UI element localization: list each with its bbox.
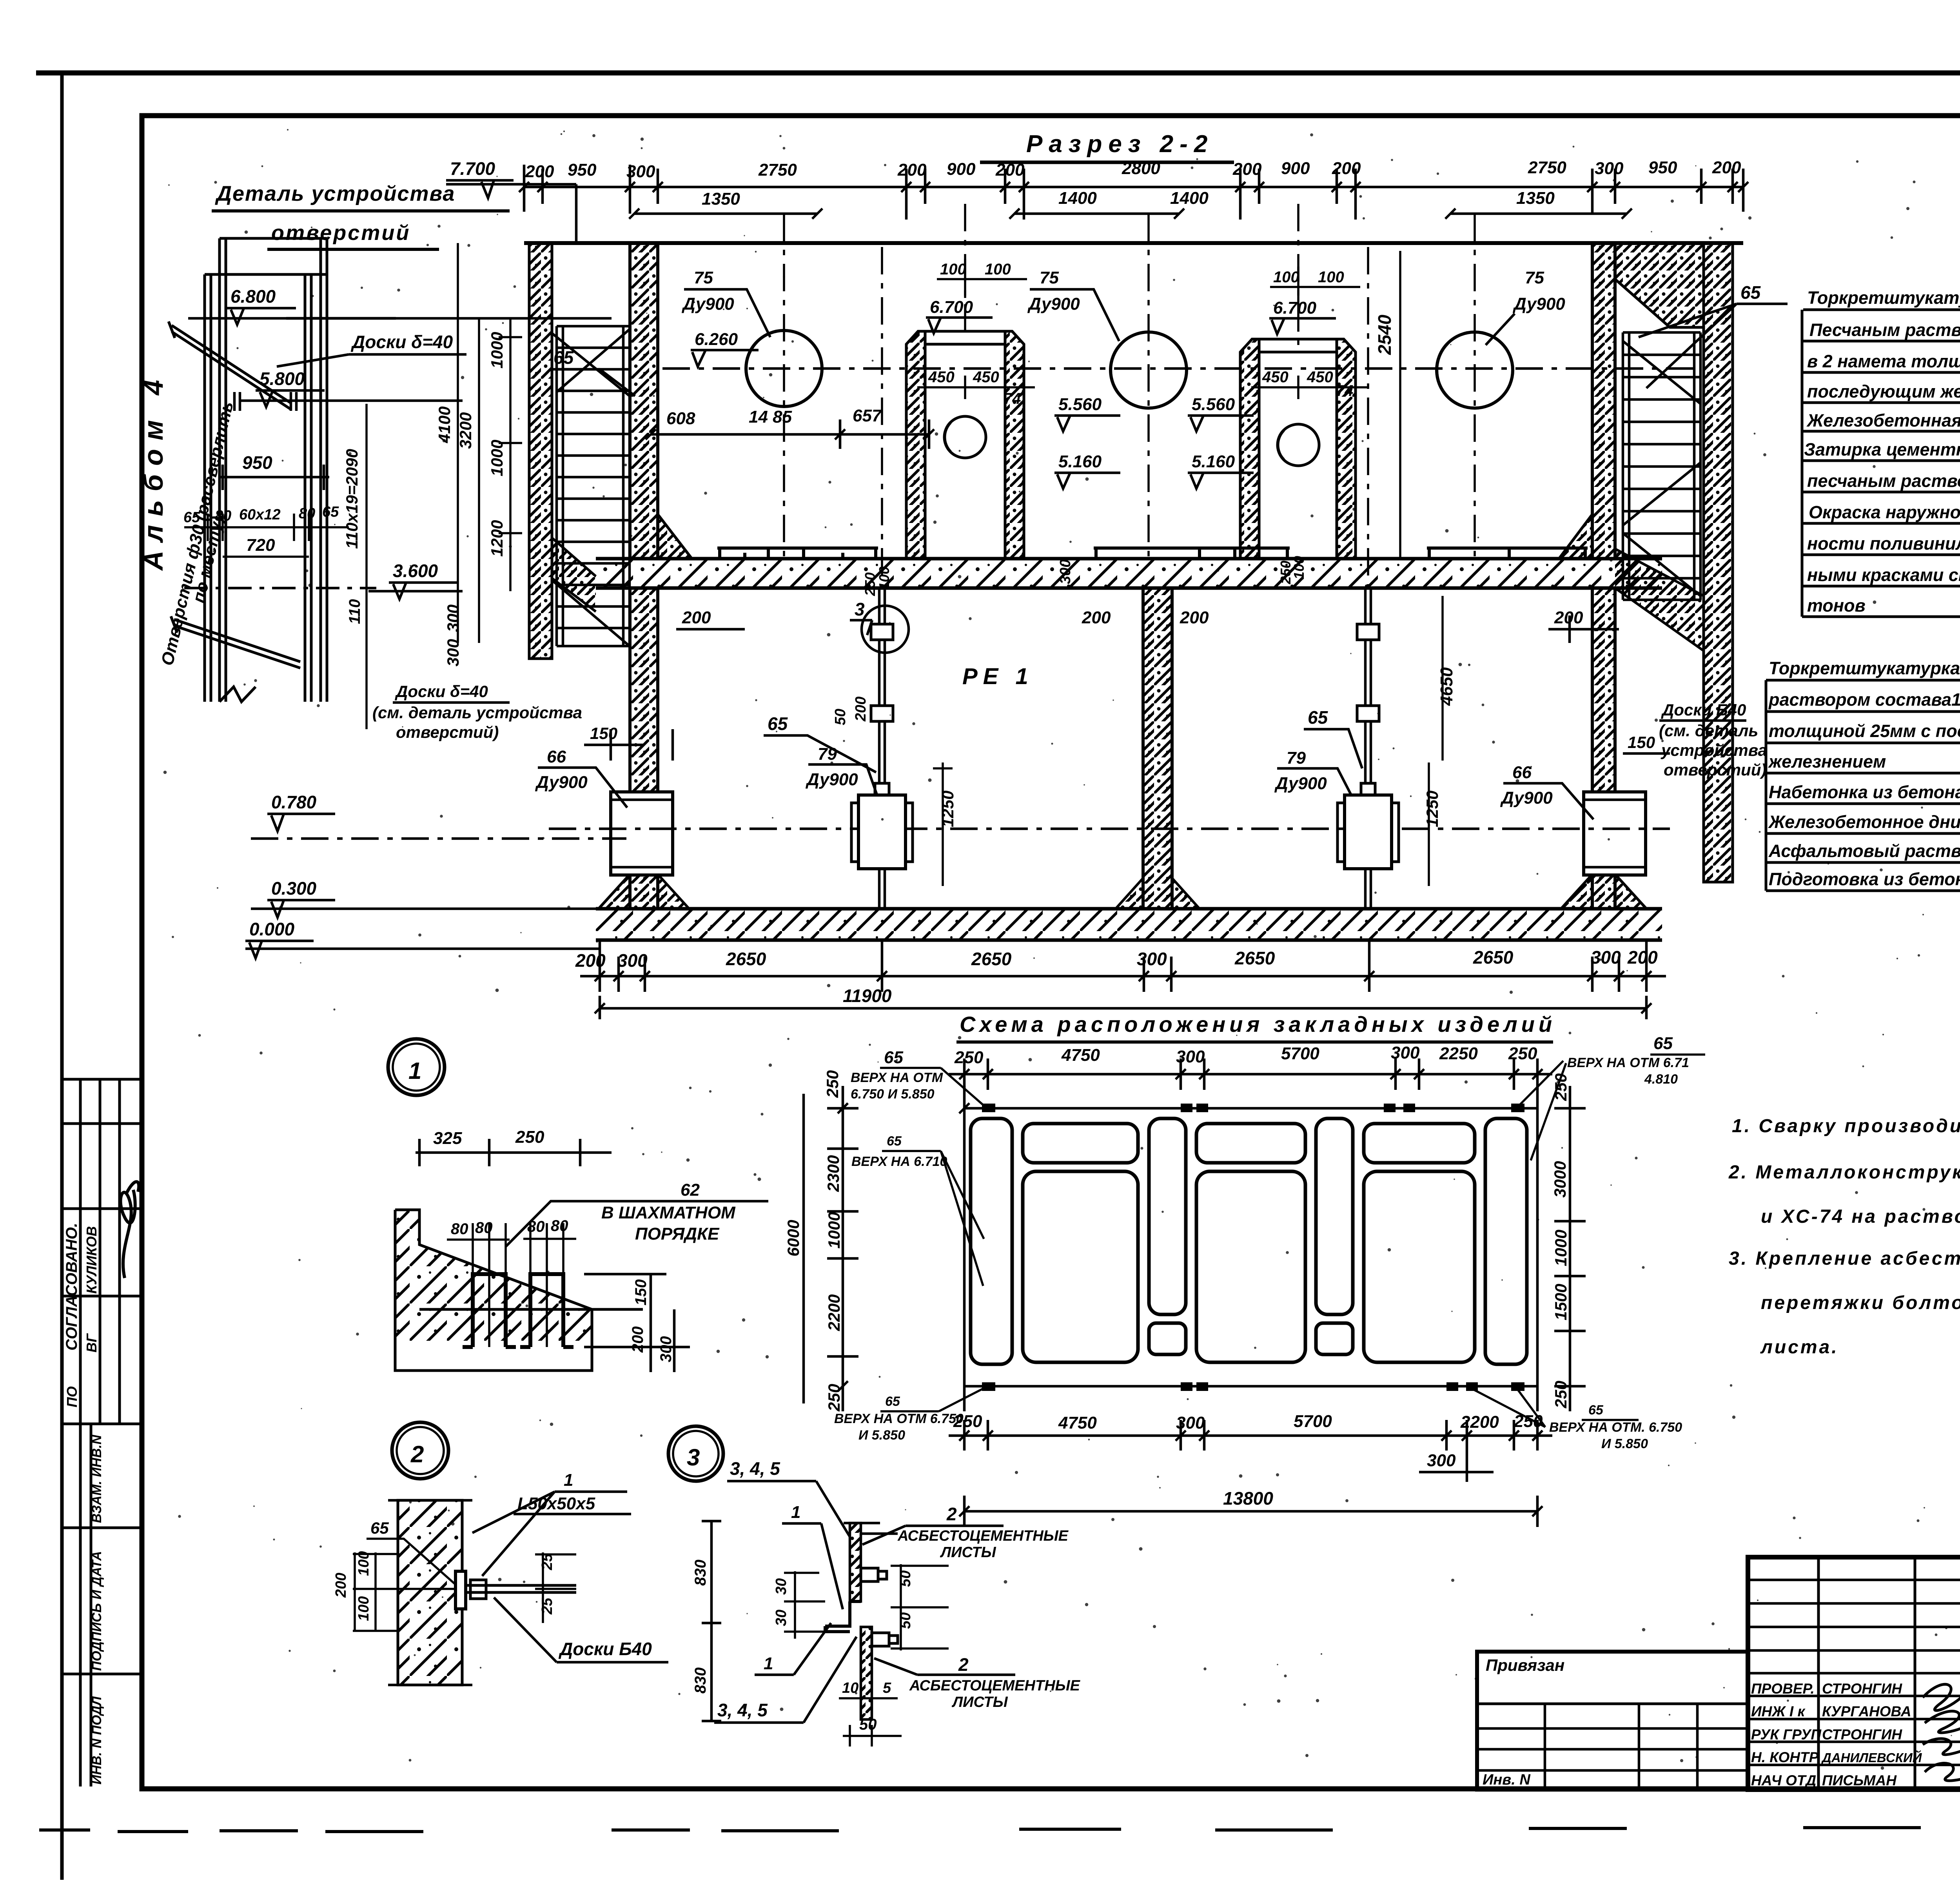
svg-text:3.600: 3.600: [393, 561, 438, 581]
sheet bottom broken line: [39, 1828, 1921, 1832]
right exterior wall (hatched): [1704, 243, 1733, 882]
svg-text:Схема расположения закладных: Схема расположения закладных изделий: [960, 1012, 1556, 1037]
svg-text:ПОДПИСЬ И ДАТА: ПОДПИСЬ И ДАТА: [89, 1551, 104, 1671]
svg-text:(см. деталь устройства: (см. деталь устройства: [372, 703, 582, 722]
detail dim 950: [220, 465, 329, 490]
right boards ladder: [1623, 332, 1700, 600]
svg-text:2. Металлоконструкции окрасит: 2. Металлоконструкции окрасить перхлорви…: [1728, 1162, 1960, 1183]
svg-text:1000: 1000: [825, 1212, 843, 1249]
svg-text:Привязан: Привязан: [1486, 1656, 1564, 1674]
svg-text:65: 65: [768, 713, 788, 734]
svg-text:5.560: 5.560: [1192, 395, 1235, 414]
schema left note 65 верх на 6.710: [851, 1134, 947, 1169]
svg-text:950: 950: [1648, 158, 1677, 177]
svg-text:300: 300: [1391, 1043, 1420, 1062]
svg-text:300: 300: [657, 1336, 675, 1362]
svg-text:3, 4, 5: 3, 4, 5: [730, 1458, 780, 1479]
svg-text:608: 608: [666, 409, 695, 428]
svg-text:1400: 1400: [1058, 189, 1097, 208]
svg-text:ПИСЬМАН: ПИСЬМАН: [1822, 1772, 1897, 1788]
label 79 Ду900 pend2: [1274, 748, 1327, 793]
schema panel B main: [1023, 1171, 1138, 1362]
detail 1 note 62 chess: [601, 1180, 736, 1244]
svg-text:75: 75: [1525, 268, 1544, 287]
section 2-2 second dimension row: [634, 212, 1627, 215]
schema dim 13800: [964, 1496, 1537, 1527]
label 75 Ду900 tank3: [1512, 268, 1565, 314]
svg-text:5.560: 5.560: [1058, 395, 1102, 414]
svg-text:АСБЕСТОЦЕМЕНТНЫЕ: АСБЕСТОЦЕМЕНТНЫЕ: [897, 1528, 1069, 1544]
svg-text:НАЧ ОТД: НАЧ ОТД: [1751, 1772, 1816, 1788]
svg-text:2: 2: [410, 1441, 424, 1467]
svg-text:250: 250: [1508, 1044, 1537, 1063]
attachment table left of title block: [1477, 1652, 1748, 1790]
floor pads tank1: [717, 548, 878, 559]
svg-text:50: 50: [832, 709, 849, 725]
partition 2 right leaf: [1337, 339, 1356, 559]
svg-text:ности поливинилацетат-: ности поливинилацетат-: [1807, 534, 1960, 554]
svg-text:2200: 2200: [825, 1294, 843, 1331]
detail 1 circle mark: [388, 1039, 445, 1095]
svg-text:74: 74: [1004, 390, 1021, 407]
svg-text:65: 65: [885, 1394, 900, 1409]
schema panel E bottom pad: [1316, 1323, 1353, 1354]
schema plate markers bottom: [982, 1382, 1524, 1391]
schema top dim line: [949, 1058, 1552, 1090]
spec text block 1: [1804, 288, 1960, 615]
detail 2 bolt assembly: [456, 1571, 576, 1609]
svg-text:4100: 4100: [435, 407, 454, 443]
scan speckles: [163, 129, 1960, 1770]
svg-text:5.160: 5.160: [1192, 452, 1235, 471]
svg-text:30: 30: [773, 1610, 789, 1626]
svg-text:Асфальтовый раствор -8: Асфальтовый раствор -8: [1768, 841, 1960, 861]
svg-text:1250: 1250: [938, 791, 957, 827]
detail 1 dims 80 80 pairs: [451, 1217, 568, 1238]
schema top-left note: [851, 1070, 943, 1102]
svg-text:Затирка цементно-: Затирка цементно-: [1804, 439, 1960, 459]
svg-text:3: 3: [855, 599, 865, 619]
svg-text:450: 450: [1307, 369, 1333, 386]
svg-text:Альбом 4: Альбом 4: [138, 371, 169, 571]
svg-text:В ШАХМАТНОМ: В ШАХМАТНОМ: [601, 1203, 736, 1222]
svg-text:80: 80: [551, 1217, 568, 1235]
svg-text:6.260: 6.260: [695, 330, 738, 349]
svg-text:1350: 1350: [1516, 189, 1555, 208]
svg-text:6.750 И 5.850: 6.750 И 5.850: [851, 1087, 935, 1102]
svg-text:300: 300: [1591, 947, 1621, 968]
svg-text:Доски Б40: Доски Б40: [558, 1639, 652, 1659]
svg-text:950: 950: [568, 160, 597, 180]
detail 2 label L50x50x5: [517, 1471, 595, 1513]
svg-text:250: 250: [1552, 1381, 1570, 1409]
left wall to slab bridge: [552, 538, 596, 612]
svg-text:перетяжки болтов для обеспе: перетяжки болтов для обеспечения влажных…: [1761, 1293, 1960, 1313]
svg-text:830: 830: [692, 1560, 709, 1586]
floor slab mid (hatched): [596, 559, 1662, 588]
svg-text:13800: 13800: [1223, 1488, 1273, 1509]
svg-text:300: 300: [1595, 159, 1624, 178]
pendulum 2 pipe 79: [1338, 795, 1399, 909]
svg-text:250: 250: [823, 1070, 842, 1098]
schema right dim chain: [1554, 1086, 1586, 1411]
svg-text:250: 250: [1514, 1412, 1543, 1431]
label 66 Ду900 left: [535, 747, 588, 792]
svg-text:отверстий: отверстий: [271, 221, 410, 245]
svg-text:11900: 11900: [843, 986, 892, 1006]
svg-text:65: 65: [554, 347, 574, 368]
svg-text:И 5.850: И 5.850: [858, 1428, 905, 1443]
svg-text:ВЕРХ НА ОТМ 6.71: ВЕРХ НА ОТМ 6.71: [1567, 1055, 1689, 1070]
svg-text:200: 200: [682, 608, 711, 627]
svg-text:Доски Б40: Доски Б40: [1661, 701, 1746, 719]
detail 2 wall band: [388, 1500, 472, 1685]
detail 1 anchor U right: [520, 1274, 573, 1347]
svg-text:4750: 4750: [1058, 1413, 1097, 1432]
detail posts: [205, 238, 327, 702]
section 2-2 roof top line: [524, 241, 1743, 245]
svg-text:Ду900: Ду900: [1027, 294, 1080, 314]
left strip signature: [121, 1182, 139, 1278]
svg-text:2750: 2750: [1528, 158, 1566, 177]
svg-text:950: 950: [242, 452, 272, 473]
partition 1 lintel line: [925, 331, 1005, 344]
svg-text:5.160: 5.160: [1058, 452, 1102, 471]
lower left wall sleeve 66 Ду900: [611, 792, 673, 875]
svg-text:отверстий): отверстий): [396, 723, 499, 741]
svg-text:60х12: 60х12: [239, 507, 281, 523]
svg-text:ВЕРХ НА ОТМ: ВЕРХ НА ОТМ: [851, 1070, 943, 1085]
lower centre line: [549, 828, 1670, 830]
partition 1 right leaf: [1005, 331, 1024, 559]
svg-text:30: 30: [773, 1578, 789, 1595]
detail 3 bolts: [861, 1568, 898, 1646]
svg-text:и ХС-74 на растворителе Р-: и ХС-74 на растворителе Р-4 по грунту ХС…: [1761, 1206, 1960, 1227]
title block signatures: [1923, 1684, 1960, 1781]
detail bolts on brace: [234, 392, 296, 411]
detail 3 circle mark: [668, 1426, 723, 1481]
svg-text:1: 1: [764, 1654, 773, 1673]
circles centre dash line: [662, 367, 1697, 370]
svg-text:200: 200: [995, 160, 1025, 180]
svg-text:300: 300: [444, 639, 462, 666]
right boards label: [1659, 701, 1767, 779]
svg-text:Н. КОНТР: Н. КОНТР: [1751, 1749, 1819, 1765]
svg-text:200: 200: [897, 160, 927, 180]
svg-text:65: 65: [183, 509, 200, 526]
svg-text:ВГ: ВГ: [83, 1333, 100, 1353]
svg-text:65: 65: [322, 504, 339, 520]
pendulum 1 pipe 79: [851, 795, 913, 909]
svg-text:65: 65: [1653, 1034, 1673, 1053]
svg-text:25: 25: [539, 1598, 555, 1615]
svg-text:1350: 1350: [702, 189, 740, 209]
partition 2 small circle 74: [1278, 424, 1319, 466]
svg-text:ВЕРХ НА ОТМ 6.750: ВЕРХ НА ОТМ 6.750: [834, 1411, 964, 1426]
svg-text:И 5.850: И 5.850: [1601, 1436, 1648, 1451]
right lower haunch: [1615, 549, 1704, 651]
svg-text:450: 450: [973, 369, 999, 386]
svg-text:2: 2: [958, 1654, 969, 1675]
schema panel F main: [1364, 1171, 1475, 1362]
svg-text:62: 62: [681, 1180, 700, 1200]
svg-text:100: 100: [940, 261, 966, 278]
svg-text:657: 657: [853, 406, 882, 425]
svg-text:325: 325: [433, 1129, 462, 1148]
svg-text:Ду900: Ду900: [1274, 774, 1327, 793]
lower left wall (hatched): [599, 588, 658, 909]
detail centreline: [184, 587, 376, 590]
detail 3 sheet strip lower: [861, 1627, 872, 1719]
svg-text:200: 200: [1332, 159, 1361, 178]
svg-text:450: 450: [928, 369, 955, 386]
schema panel E: [1316, 1118, 1353, 1314]
detail 3 sheet strip upper: [844, 1523, 898, 1601]
svg-text:в 2 намета толщиной 25мм с: в 2 намета толщиной 25мм с: [1807, 351, 1960, 371]
svg-text:ЛИСТЫ: ЛИСТЫ: [940, 1544, 996, 1561]
partition 1 small circle 74: [944, 416, 986, 458]
svg-text:Песчаным раствором состава1:2: Песчаным раствором состава1:2: [1809, 320, 1960, 340]
bottom haunches: [658, 874, 1592, 909]
floor pads tank2-3: [1094, 548, 1588, 559]
svg-text:7.700: 7.700: [450, 158, 495, 179]
schema panel B top band: [1023, 1124, 1138, 1163]
svg-text:железнением: железнением: [1768, 752, 1886, 772]
svg-text:РУК ГРУП: РУК ГРУП: [1751, 1727, 1822, 1743]
svg-text:Деталь устройства: Деталь устройства: [215, 182, 455, 205]
svg-text:300: 300: [1427, 1451, 1456, 1470]
svg-text:100: 100: [1273, 269, 1299, 286]
detail 1 right dims: [584, 1274, 690, 1372]
svg-text:100: 100: [985, 261, 1011, 278]
right roof haunch mass: [1615, 243, 1704, 327]
pendulum 2 assembly: [1357, 588, 1379, 796]
schema panel F top band: [1364, 1124, 1475, 1163]
svg-text:0.780: 0.780: [271, 792, 317, 812]
svg-text:последующим железнением: последующим железнением: [1807, 381, 1960, 401]
detail 1 dims 325 250: [416, 1139, 612, 1166]
svg-text:Инв. N: Инв. N: [1483, 1772, 1531, 1788]
detail 2 rotated dims: [333, 1551, 555, 1621]
detail 1 anchor U left: [463, 1274, 516, 1347]
schema outer boundary lines: [964, 1086, 1537, 1411]
section 2-2 top dimension line: [524, 186, 1743, 189]
detail 2 circle mark: [392, 1422, 448, 1479]
svg-text:200: 200: [1180, 608, 1209, 627]
svg-text:тонов: тонов: [1807, 595, 1866, 615]
detail diagonal braces: [169, 321, 300, 668]
svg-text:200: 200: [1627, 947, 1658, 968]
svg-text:ными красками светлых: ными красками светлых: [1807, 565, 1960, 585]
svg-text:2650: 2650: [726, 949, 766, 969]
detail 1 slab top line: [419, 1308, 643, 1311]
detail 3 dims 50 50 right: [897, 1570, 914, 1629]
section 2-2 bottom dims row: [580, 975, 1666, 978]
svg-text:250: 250: [515, 1127, 544, 1147]
opening circle tank2 Ду900: [1111, 332, 1187, 408]
svg-text:1500: 1500: [1552, 1284, 1570, 1320]
svg-text:75: 75: [694, 268, 713, 287]
svg-text:2200: 2200: [1460, 1412, 1499, 1432]
label 79 Ду900 pend1: [805, 744, 858, 789]
schema bottom dim line: [949, 1420, 1552, 1482]
svg-text:200: 200: [525, 162, 554, 181]
sheet outer border left: [60, 73, 64, 1880]
svg-text:250: 250: [1552, 1073, 1570, 1101]
svg-text:3000: 3000: [1551, 1161, 1569, 1198]
svg-text:2: 2: [946, 1504, 957, 1524]
svg-text:300: 300: [1176, 1413, 1205, 1432]
svg-text:Подготовка из бетона В3.5-100: Подготовка из бетона В3.5-100: [1769, 869, 1960, 889]
svg-text:2540: 2540: [1374, 314, 1395, 355]
svg-text:Ду900: Ду900: [1500, 788, 1553, 808]
svg-text:300: 300: [617, 950, 648, 971]
dimension slash ticks: [519, 182, 1960, 1516]
svg-text:Ду900: Ду900: [1512, 294, 1565, 314]
svg-text:65: 65: [370, 1519, 389, 1537]
pendulum 1 assembly: [871, 588, 893, 796]
dims 608 1485 657: [666, 406, 882, 428]
svg-text:1: 1: [564, 1471, 573, 1490]
schema panel D top band: [1196, 1124, 1305, 1163]
svg-text:Торкретштукатурка цементно-пес: Торкретштукатурка цементно-песчаным: [1769, 658, 1960, 678]
svg-text:1: 1: [791, 1503, 800, 1522]
sheet outer border top: [36, 71, 1960, 76]
svg-text:Разрез 2-2: Разрез 2-2: [1026, 131, 1214, 158]
schema left dim chain: [804, 1086, 858, 1411]
svg-text:200: 200: [853, 697, 869, 722]
detail 3 dims 30 30: [773, 1578, 789, 1626]
svg-text:66: 66: [547, 747, 566, 766]
detail dims 65 80 60x12 80 65: [183, 504, 339, 526]
svg-text:устройства: устройства: [1661, 741, 1767, 759]
svg-text:3: 3: [687, 1444, 700, 1471]
svg-text:300: 300: [1176, 1047, 1205, 1066]
svg-text:80: 80: [451, 1220, 468, 1238]
svg-text:720: 720: [246, 536, 275, 555]
svg-text:110х19=2090: 110х19=2090: [343, 449, 361, 549]
svg-text:0.300: 0.300: [271, 878, 317, 899]
svg-text:5700: 5700: [1281, 1044, 1319, 1063]
svg-text:200: 200: [333, 1573, 349, 1598]
svg-text:900: 900: [947, 160, 976, 179]
notes list: [1728, 1116, 1960, 1358]
svg-text:66: 66: [1512, 763, 1532, 782]
svg-text:Ду900: Ду900: [805, 770, 858, 789]
svg-text:150: 150: [590, 724, 617, 743]
svg-text:раствором состава1:2 в 2 намет: раствором состава1:2 в 2 намета: [1768, 690, 1960, 710]
svg-text:1200: 1200: [488, 520, 506, 557]
svg-text:900: 900: [1281, 159, 1310, 178]
schema top-right note: [1567, 1055, 1689, 1087]
svg-text:25: 25: [539, 1553, 555, 1570]
svg-text:80: 80: [299, 505, 315, 522]
svg-text:ВЗАМ. ИНВ.N: ВЗАМ. ИНВ.N: [89, 1434, 104, 1523]
svg-text:4650: 4650: [1437, 667, 1456, 706]
svg-text:2650: 2650: [1473, 947, 1514, 968]
vertical axes of openings: [784, 204, 1475, 588]
svg-text:СТРОНГИН: СТРОНГИН: [1822, 1681, 1902, 1697]
right inner wall (hatched): [1559, 243, 1615, 559]
svg-text:100: 100: [1318, 269, 1344, 286]
svg-text:Железобетонная стена-300 мм: Железобетонная стена-300 мм: [1806, 410, 1960, 430]
svg-text:50: 50: [859, 1716, 877, 1733]
svg-text:200: 200: [1232, 160, 1262, 179]
svg-text:2650: 2650: [1234, 948, 1275, 968]
svg-text:3, 4, 5: 3, 4, 5: [717, 1700, 768, 1720]
svg-text:ПРОВЕР.: ПРОВЕР.: [1751, 1681, 1815, 1697]
svg-text:4750: 4750: [1061, 1046, 1100, 1065]
partition 1 left leaf: [906, 331, 925, 559]
spec text block 2: [1768, 658, 1960, 889]
schema panel D main: [1196, 1171, 1305, 1362]
svg-text:200: 200: [1082, 608, 1111, 627]
svg-text:1000: 1000: [1552, 1230, 1570, 1266]
lower centre wall (hatched): [1143, 588, 1172, 909]
svg-text:СТРОНГИН: СТРОНГИН: [1822, 1727, 1902, 1743]
title block frame: [1748, 1557, 1960, 1790]
label 66 Ду900 right: [1500, 763, 1553, 808]
svg-text:2750: 2750: [758, 160, 797, 180]
svg-text:Ду900: Ду900: [681, 294, 734, 314]
svg-text:отверстий): отверстий): [1664, 761, 1766, 779]
left exterior thin wall (hatched): [529, 243, 552, 659]
dim 11900: [600, 996, 1646, 1019]
svg-text:300: 300: [626, 162, 655, 181]
svg-text:Железобетонное днище - 300: Железобетонное днище - 300: [1768, 812, 1960, 832]
detail post top bar: [286, 317, 396, 320]
bottom slab (hatched): [596, 909, 1662, 940]
svg-text:Доски δ=40: Доски δ=40: [350, 332, 453, 352]
svg-text:2650: 2650: [971, 949, 1012, 969]
svg-text:300: 300: [1137, 949, 1167, 969]
svg-text:2300: 2300: [824, 1155, 842, 1192]
detail 3 dims 830: [702, 1521, 721, 1721]
svg-text:песчаным раствором: песчаным раствором: [1807, 471, 1960, 491]
svg-text:6000: 6000: [784, 1220, 802, 1256]
schema panel A: [971, 1118, 1012, 1364]
svg-text:74: 74: [1336, 382, 1354, 399]
opening circle tank3 Ду900: [1437, 332, 1513, 408]
svg-text:250: 250: [953, 1412, 982, 1431]
svg-text:65: 65: [1588, 1403, 1604, 1418]
schema dim 300 lower: [1419, 1471, 1494, 1474]
partition 2 left leaf: [1240, 339, 1259, 559]
boards label below left wall: [372, 682, 582, 741]
svg-text:14 85: 14 85: [749, 407, 792, 427]
svg-text:ВЕРХ НА ОТМ. 6.750: ВЕРХ НА ОТМ. 6.750: [1549, 1420, 1682, 1435]
svg-text:1000: 1000: [488, 440, 506, 476]
left boards ladder: [552, 326, 630, 646]
left main wall (hatched): [630, 243, 692, 559]
svg-text:0.000: 0.000: [249, 919, 295, 939]
svg-text:РЕ 1: РЕ 1: [962, 664, 1034, 689]
svg-text:300: 300: [1057, 559, 1074, 584]
svg-text:75: 75: [1040, 268, 1059, 287]
section 2-2 top dimension labels: [525, 158, 1741, 181]
svg-text:6.700: 6.700: [1273, 298, 1317, 318]
detail right dim chain texts: [435, 332, 506, 666]
svg-text:2250: 2250: [1439, 1044, 1478, 1063]
svg-text:150: 150: [1628, 733, 1655, 752]
schema bottom-right note: [1549, 1403, 1682, 1451]
title block rows names: [1751, 1681, 1922, 1788]
svg-text:1400: 1400: [1170, 189, 1209, 208]
svg-text:КУРГАНОВА: КУРГАНОВА: [1822, 1703, 1911, 1719]
svg-text:АСБЕСТОЦЕМЕНТНЫЕ: АСБЕСТОЦЕМЕНТНЫЕ: [909, 1678, 1081, 1694]
svg-text:Торкретштукатурка цементно: Торкретштукатурка цементно: [1807, 288, 1960, 308]
svg-text:ЛИСТЫ: ЛИСТЫ: [951, 1694, 1008, 1710]
